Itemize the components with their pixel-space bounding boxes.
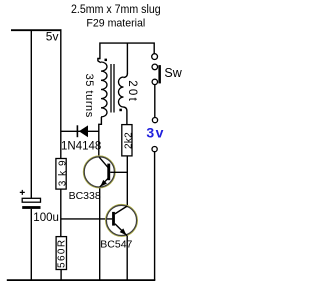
svg-text:100u: 100u: [33, 212, 59, 224]
svg-text:35 turns: 35 turns: [83, 74, 95, 118]
svg-text:BC547: BC547: [100, 239, 132, 251]
svg-text:3k9: 3k9: [57, 156, 68, 187]
svg-text:2.5mm x 7mm slug: 2.5mm x 7mm slug: [71, 4, 161, 17]
svg-text:5v: 5v: [46, 30, 59, 44]
svg-text:560R: 560R: [57, 238, 68, 268]
svg-text:3v: 3v: [146, 125, 165, 141]
svg-text:20t: 20t: [126, 80, 138, 103]
svg-text:1N4148: 1N4148: [61, 141, 101, 153]
svg-text:F29 material: F29 material: [86, 17, 145, 29]
svg-text:BC338: BC338: [69, 190, 101, 202]
svg-text:Sw: Sw: [164, 66, 182, 80]
svg-text:2k2: 2k2: [123, 132, 134, 149]
